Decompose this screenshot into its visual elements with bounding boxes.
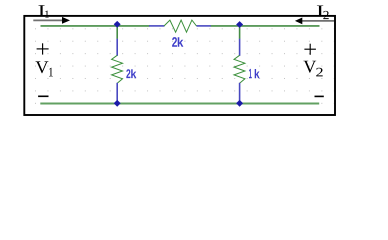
value label 2k of R2: letter k xyxy=(131,69,136,78)
resistor R1 (series 2k): left lead xyxy=(149,25,165,27)
polarity minus sign at port 2 xyxy=(315,95,324,97)
value label 2k of R1: letter k xyxy=(178,37,184,47)
current arrow I1: shaft xyxy=(33,19,63,21)
resistor R3 (shunt 1k): zigzag body xyxy=(234,55,245,83)
label I1: letter I xyxy=(39,5,45,16)
junction node D (bottom rail / R3), diamond xyxy=(236,100,243,107)
resistor R1 (series 2k): right lead xyxy=(197,25,211,27)
polarity plus sign at port 2: horizontal bar xyxy=(304,48,316,50)
label V1: subscript 1 xyxy=(49,68,53,77)
current arrow I2: shaft xyxy=(302,20,334,22)
current arrow I1: head (points right, into port 1) xyxy=(62,17,70,24)
value label 1k of R3: digit 1 xyxy=(249,69,252,78)
label V1: letter V xyxy=(36,61,49,73)
wire: node B stub from top rail into R3 (green) xyxy=(239,25,241,39)
wire: node A stub from top rail into R2 (green) xyxy=(116,25,118,39)
value label 1k of R3: letter k xyxy=(255,69,260,78)
junction node A (top rail / R2), diamond xyxy=(114,21,121,28)
resistor R2 (shunt 2k): lower lead xyxy=(116,83,118,104)
wire: bottom rail (green) xyxy=(40,103,319,105)
junction node C (bottom rail / R2), diamond xyxy=(114,100,121,107)
wire: top rail, port 1 side (green) xyxy=(41,25,150,27)
junction node B (top rail / R3), diamond xyxy=(236,21,243,28)
value label 2k of R1: digit 2 xyxy=(172,37,177,47)
value label 2k of R2: digit 2 xyxy=(126,69,130,78)
resistor R1 (series 2k): zigzag body xyxy=(164,20,197,32)
current arrow I2: head (points left, into port 2) xyxy=(295,18,302,25)
resistor R2 (shunt 2k): upper lead xyxy=(116,39,118,56)
label I2: subscript 2 xyxy=(323,11,328,19)
resistor R3 (shunt 1k): upper lead xyxy=(239,39,241,56)
resistor R2 (shunt 2k): zigzag body xyxy=(112,55,123,83)
polarity plus sign at port 1: horizontal bar xyxy=(37,48,49,50)
polarity minus sign at port 1 xyxy=(38,95,48,97)
label I2: letter I xyxy=(317,6,323,17)
polarity plus sign at port 2: vertical bar xyxy=(309,44,311,55)
label V2: subscript 2 xyxy=(316,68,323,77)
polarity plus sign at port 1: vertical bar xyxy=(42,43,44,54)
label V2: letter V xyxy=(303,61,316,73)
resistor R3 (shunt 1k): lower lead xyxy=(239,83,241,104)
wire: top rail, port 2 side (green) xyxy=(211,25,320,27)
label I1: subscript 1 xyxy=(45,11,49,18)
